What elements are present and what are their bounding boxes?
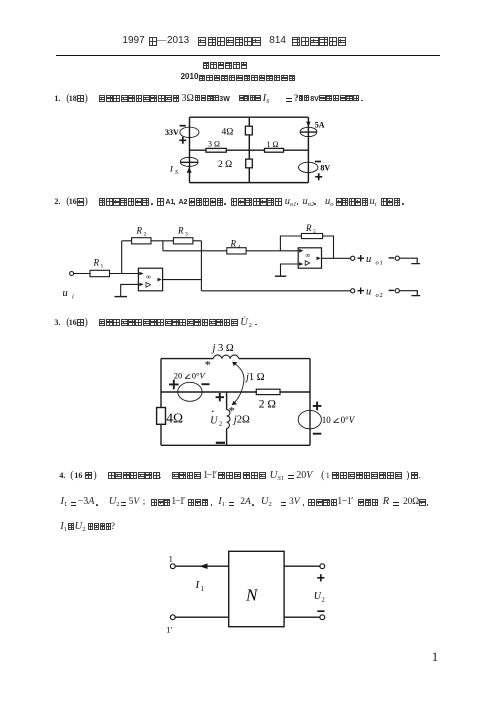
two-port network N bbox=[229, 551, 284, 626]
wire vertical at A1 output bbox=[200, 241, 202, 291]
svg-text:3: 3 bbox=[185, 232, 188, 238]
polarity U2 minus bbox=[216, 442, 225, 444]
svg-text:33V: 33V bbox=[165, 128, 179, 137]
label +uo2 bbox=[358, 286, 395, 299]
label ui bbox=[63, 288, 75, 301]
polarity U2 minus bbox=[317, 610, 324, 612]
label +uo1 bbox=[358, 254, 395, 267]
label U2 bbox=[314, 591, 325, 604]
wire right bbox=[307, 117, 309, 182]
svg-text:1: 1 bbox=[380, 259, 383, 266]
svg-text:1′: 1′ bbox=[166, 625, 172, 635]
svg-text:N: N bbox=[245, 586, 259, 605]
wire bottom uo2 line bbox=[201, 290, 350, 292]
resistor 4ohm bbox=[222, 126, 253, 137]
svg-text:5: 5 bbox=[313, 229, 316, 235]
wire bottom bbox=[190, 182, 309, 184]
svg-text:2 Ω: 2 Ω bbox=[259, 399, 276, 411]
resistor 2ohm bbox=[218, 159, 252, 170]
resistor 2ohm bbox=[256, 389, 280, 410]
voltage source 8V bbox=[299, 162, 331, 181]
svg-text:R: R bbox=[177, 226, 184, 236]
svg-text:2 Ω: 2 Ω bbox=[218, 160, 232, 170]
svg-text:*: * bbox=[205, 358, 211, 372]
resistor R3 bbox=[173, 226, 193, 244]
svg-text:∞: ∞ bbox=[305, 251, 310, 259]
inductor j3ohm bbox=[211, 343, 239, 359]
svg-text:10: 10 bbox=[322, 415, 332, 425]
wire top right bbox=[239, 358, 310, 360]
wire right bbox=[309, 359, 311, 446]
wire port1 top bbox=[175, 565, 229, 567]
svg-text:*: * bbox=[229, 404, 235, 418]
wire middle horizontal bbox=[161, 391, 310, 393]
svg-text:1: 1 bbox=[101, 264, 104, 270]
terminal uo1 left bbox=[351, 256, 355, 260]
svg-text:U: U bbox=[210, 415, 218, 426]
voltage source 33V bbox=[165, 126, 199, 144]
op-amp A2 bbox=[298, 248, 321, 268]
label U2 bbox=[210, 411, 222, 428]
resistor 3ohm bbox=[206, 140, 226, 153]
svg-text:5A: 5A bbox=[315, 120, 325, 129]
wire port2 top bbox=[284, 565, 320, 567]
svg-text:8V: 8V bbox=[320, 163, 330, 172]
wire left bbox=[160, 359, 162, 446]
svg-text:u: u bbox=[366, 286, 371, 297]
svg-text:S: S bbox=[175, 170, 178, 176]
input terminal bbox=[70, 272, 74, 276]
voltage source 20V bbox=[169, 371, 210, 402]
svg-text:20: 20 bbox=[174, 371, 183, 381]
terminal 1 bbox=[169, 554, 176, 569]
wire R5 feedback left bbox=[280, 236, 301, 251]
wire second line to R4 and A2 bbox=[163, 250, 298, 252]
op-amp A1 bbox=[138, 268, 162, 291]
svg-text:u: u bbox=[63, 288, 68, 299]
svg-text:R: R bbox=[93, 258, 100, 268]
svg-text:4Ω: 4Ω bbox=[222, 128, 234, 138]
svg-text:1 Ω: 1 Ω bbox=[267, 140, 279, 149]
wire left bbox=[189, 117, 191, 182]
resistor R5 bbox=[301, 223, 322, 238]
wire top bbox=[190, 116, 309, 118]
polarity U2 plus bbox=[216, 393, 224, 401]
wire A2 noninverting to ground bbox=[281, 264, 299, 276]
wire middle vertical bbox=[248, 117, 250, 182]
svg-text:u: u bbox=[366, 254, 371, 265]
terminal 2 bbox=[320, 564, 325, 569]
svg-text:j1 Ω: j1 Ω bbox=[244, 372, 265, 383]
wire input to R1 bbox=[74, 273, 90, 275]
wire port2 bottom bbox=[284, 616, 320, 618]
wire node a up bbox=[121, 241, 123, 274]
terminal 1prime bbox=[166, 615, 175, 635]
wire top run R2 R3 bbox=[122, 240, 202, 242]
svg-text:3 Ω: 3 Ω bbox=[208, 140, 220, 149]
resistor R4 bbox=[227, 238, 246, 254]
svg-text:0°V: 0°V bbox=[192, 371, 207, 381]
voltage source 10V bbox=[298, 402, 356, 434]
svg-text:2: 2 bbox=[219, 421, 222, 428]
wire R5 feedback right bbox=[323, 236, 334, 258]
polarity U2 plus bbox=[317, 574, 324, 581]
wire middle horizontal bbox=[190, 149, 309, 151]
svg-text:0°V: 0°V bbox=[341, 415, 356, 425]
wire middle vertical upper bbox=[226, 392, 228, 410]
resistor R2 bbox=[132, 226, 151, 244]
current source 5A bbox=[300, 120, 325, 136]
ground A1 bbox=[115, 296, 128, 298]
svg-text:4Ω: 4Ω bbox=[166, 411, 183, 426]
svg-text:1: 1 bbox=[201, 585, 205, 593]
wire node b down bbox=[162, 241, 164, 251]
resistor R1 bbox=[90, 258, 110, 277]
svg-text:1: 1 bbox=[169, 554, 173, 564]
wire A1 output to vertical bbox=[163, 279, 202, 281]
wire A2 output bbox=[322, 257, 351, 259]
svg-text:2: 2 bbox=[380, 292, 383, 299]
terminal 2prime bbox=[320, 615, 325, 620]
resistor 1ohm bbox=[265, 140, 284, 152]
svg-text:j 3 Ω: j 3 Ω bbox=[211, 343, 234, 354]
inductor j2ohm bbox=[227, 410, 250, 429]
wire R1 to A1 inverting input bbox=[110, 273, 139, 275]
svg-text:2: 2 bbox=[144, 232, 147, 238]
svg-text:∞: ∞ bbox=[146, 273, 151, 281]
wire middle vertical lower bbox=[226, 428, 228, 445]
terminal uo2 left bbox=[351, 289, 355, 293]
wire top left bbox=[161, 358, 213, 360]
svg-text:i: i bbox=[72, 294, 74, 301]
ground A2 bbox=[275, 275, 286, 277]
wire bottom bbox=[161, 444, 310, 446]
svg-text:R: R bbox=[136, 226, 143, 236]
wire port1 bottom bbox=[175, 616, 229, 618]
svg-text:R: R bbox=[230, 238, 237, 248]
current source Is bbox=[169, 157, 198, 176]
terminal uo2 right bbox=[395, 289, 420, 296]
resistor 4ohm bbox=[157, 408, 183, 426]
svg-text:2: 2 bbox=[322, 597, 325, 604]
current arrow I1 bbox=[195, 563, 208, 593]
wire A1 noninverting to ground bbox=[121, 284, 139, 296]
svg-text:R: R bbox=[305, 223, 312, 233]
terminal uo1 right bbox=[395, 256, 420, 264]
svg-text:I: I bbox=[169, 164, 174, 174]
svg-text:4: 4 bbox=[238, 244, 241, 250]
mutual coupling arc j1ohm bbox=[232, 362, 265, 405]
